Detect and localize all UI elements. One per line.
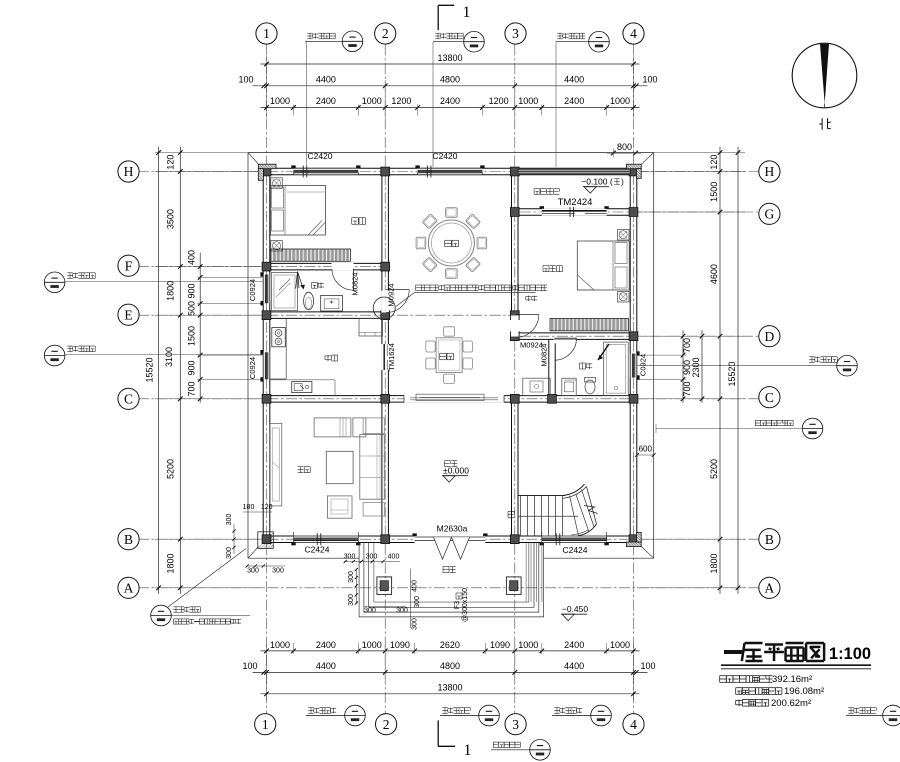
corner pilaster top-left [258, 164, 276, 180]
hall washbasin [523, 378, 550, 395]
axis bubble C left [118, 388, 139, 409]
svg-text:C0924: C0924 [248, 279, 257, 301]
public bath washer [562, 378, 576, 395]
public bath toilet [585, 378, 596, 395]
svg-text:H: H [765, 164, 775, 179]
north label [821, 118, 823, 130]
svg-text:120: 120 [261, 504, 273, 511]
window C2420 top-middle [415, 165, 484, 177]
svg-text:300: 300 [226, 514, 233, 526]
decorative column dims at B [226, 504, 285, 575]
svg-text:1000: 1000 [362, 96, 382, 106]
window C0924 right [630, 351, 640, 379]
kitchen sink [292, 382, 312, 393]
title yiceng pingmiantu [724, 650, 742, 654]
round dining table [416, 208, 487, 279]
svg-text:5200: 5200 [709, 459, 719, 479]
svg-text:4800: 4800 [440, 661, 460, 671]
dim 600 right [635, 445, 655, 459]
svg-text:120: 120 [166, 155, 176, 170]
window C0924 left lower [260, 350, 270, 382]
master bath shower door fan [296, 272, 305, 290]
interior wall along axis 3 [512, 175, 519, 536]
callout waiqiang dayang1 bottom [440, 705, 499, 726]
svg-text:300: 300 [344, 554, 356, 561]
svg-text:2: 2 [383, 717, 390, 732]
porch column small dims [344, 554, 421, 630]
right dimension lines [637, 147, 745, 594]
svg-text:1800: 1800 [166, 553, 176, 573]
svg-text:M0824: M0824 [351, 273, 360, 296]
callout concrete steps bottom [491, 740, 550, 761]
section mark 1 top [438, 4, 470, 30]
svg-text:500: 500 [187, 301, 197, 316]
balcony door TM2424 in wall G [540, 206, 609, 217]
svg-text:C2424: C2424 [304, 545, 329, 555]
svg-text:300: 300 [364, 608, 376, 615]
svg-text:C0924: C0924 [639, 354, 648, 376]
axis bubble 3 top [505, 23, 526, 44]
axis bubble E left [118, 304, 139, 325]
svg-text:1500: 1500 [709, 182, 719, 202]
svg-text:TM1624: TM1624 [387, 343, 396, 371]
svg-text:−0.100 (: −0.100 ( [581, 177, 613, 187]
label dining rect [440, 352, 447, 354]
elderly wardrobe hatched [550, 319, 629, 331]
section mark 1 bottom [438, 720, 471, 759]
exterior wall top along H [263, 168, 637, 175]
note line 3 [736, 698, 811, 709]
svg-text:900: 900 [187, 283, 197, 298]
balcony railing top right [518, 169, 630, 174]
rectangular dining table [426, 327, 473, 384]
svg-text:1000: 1000 [270, 640, 290, 650]
axis bubble 1 top [256, 23, 277, 44]
label up (stairs) [507, 511, 509, 517]
master bath shower [272, 273, 298, 311]
svg-text:F3: F3 [454, 601, 461, 609]
svg-text:2400: 2400 [440, 96, 460, 106]
svg-text:1000: 1000 [518, 96, 538, 106]
svg-text:700: 700 [682, 381, 692, 396]
interior wall E [270, 312, 389, 319]
svg-text:D: D [765, 329, 775, 344]
svg-text:M0924: M0924 [387, 284, 396, 307]
svg-text:3100: 3100 [164, 347, 174, 367]
columns at wall intersections [262, 167, 638, 543]
callout waiqiang dayang5 left #2 [44, 345, 263, 366]
svg-text:3: 3 [512, 26, 519, 41]
living bench top [314, 418, 366, 437]
svg-text:800: 800 [617, 142, 632, 152]
public bath door arrow [598, 344, 609, 360]
axis bubble B left [118, 529, 139, 550]
svg-text:300: 300 [226, 547, 233, 559]
corner pilaster bottom-right [627, 533, 642, 547]
interior wall along axis 2 [382, 175, 389, 536]
svg-text:120: 120 [709, 155, 719, 170]
svg-text:2300: 2300 [691, 357, 701, 377]
label porch [443, 566, 449, 568]
svg-text:700: 700 [682, 338, 692, 353]
svg-text:700: 700 [187, 381, 197, 396]
svg-text:G: G [765, 206, 775, 221]
axis bubble 3 bottom [505, 714, 526, 735]
label balcony [534, 188, 540, 190]
svg-text:±0.000: ±0.000 [443, 466, 469, 476]
left dimension lines [145, 147, 264, 594]
label master bath [312, 281, 318, 283]
axis bubble H right [759, 161, 780, 182]
svg-text:100: 100 [242, 661, 257, 671]
svg-text:1200: 1200 [391, 96, 411, 106]
opening in wall C at hall [404, 395, 504, 403]
svg-text:100: 100 [238, 75, 253, 85]
svg-text:4400: 4400 [316, 75, 336, 85]
svg-text:B: B [765, 532, 774, 547]
svg-text:1000: 1000 [362, 640, 382, 650]
kitchen counters [270, 319, 335, 396]
label elderly room [543, 265, 549, 267]
svg-text:300: 300 [396, 608, 408, 615]
svg-text:−0.450: −0.450 [562, 604, 589, 614]
axis bubble B right [759, 529, 780, 550]
svg-text:300: 300 [348, 571, 355, 583]
master wardrobe hatched [271, 249, 351, 261]
svg-text:392.16m²: 392.16m² [772, 674, 812, 685]
corner pilaster top-right [627, 164, 642, 178]
svg-text:1000: 1000 [518, 640, 538, 650]
interior wall D elderly room [518, 333, 630, 340]
svg-text:1000: 1000 [270, 96, 290, 106]
note line 1 [720, 674, 812, 685]
elderly room bed [577, 241, 629, 290]
note yu tong [528, 296, 530, 301]
svg-text:3: 3 [512, 717, 519, 732]
svg-text:100: 100 [642, 75, 657, 85]
master bath toilet [304, 292, 314, 310]
window C2424 bottom-right [540, 532, 609, 545]
callout concrete apron right [656, 418, 823, 439]
axis bubble 4 top [623, 23, 644, 44]
svg-text:M2630a: M2630a [437, 524, 468, 534]
svg-text:4400: 4400 [564, 75, 584, 85]
label public bath [580, 362, 586, 364]
public bath tub [604, 342, 629, 396]
svg-text:4800: 4800 [440, 75, 460, 85]
porch column left [377, 577, 392, 595]
svg-text:400: 400 [388, 554, 400, 561]
svg-text:300: 300 [412, 618, 419, 630]
svg-text:1090: 1090 [490, 640, 510, 650]
axis bubble 1 bottom [255, 714, 276, 735]
staircase [518, 484, 598, 602]
callout waiqiang dayang2 bottom #2 [552, 705, 611, 726]
callout waiqiang dayang3 #2 top [433, 31, 484, 167]
svg-text:F: F [125, 258, 133, 273]
tv cabinet [270, 423, 282, 506]
interior wall G balcony [518, 209, 630, 215]
svg-text:15520: 15520 [727, 361, 737, 386]
svg-text:400: 400 [412, 580, 419, 592]
svg-text:1: 1 [263, 26, 270, 41]
svg-text:3500: 3500 [166, 209, 176, 229]
svg-text:100: 100 [640, 661, 655, 671]
svg-text:4400: 4400 [564, 661, 584, 671]
svg-text:1: 1 [262, 717, 269, 732]
svg-text:200.62m²: 200.62m² [771, 698, 811, 709]
svg-text:1200: 1200 [489, 96, 509, 106]
coffee table [326, 451, 353, 483]
svg-text:1800: 1800 [709, 553, 719, 573]
svg-text:C2420: C2420 [307, 151, 332, 161]
svg-text:300: 300 [348, 594, 355, 606]
svg-text:300: 300 [247, 568, 259, 575]
axis bubble H left [118, 161, 139, 182]
svg-text:C: C [124, 391, 133, 406]
interior wall C full [270, 396, 630, 403]
bath partition wall D-C middle [549, 339, 555, 395]
note line 2 [736, 686, 824, 697]
kitchen fridge/cabinet [359, 319, 383, 337]
callout zaoxingzhu bottom-left [151, 549, 250, 626]
svg-text:13800: 13800 [437, 683, 462, 693]
callout waiqiang dayang5 right [638, 355, 858, 376]
door M0824 master bath [332, 263, 354, 290]
window C2424 bottom-left [291, 532, 360, 545]
door M0924 master bedroom at axis2/E [373, 290, 409, 320]
label living room [298, 466, 304, 468]
callout waiqiang dayang5 left #1 [44, 272, 263, 293]
callout waiqiang dayang2 bottom #1 [306, 705, 365, 726]
dimension 800 top-right [607, 142, 641, 157]
porch column right [506, 577, 521, 595]
svg-text:2400: 2400 [564, 640, 584, 650]
level mark -0.100 balcony [581, 177, 624, 194]
svg-text:300: 300 [272, 568, 284, 575]
entry door M2630a [412, 533, 487, 559]
exterior wall bottom along B [263, 536, 637, 543]
interior wall F [270, 263, 382, 270]
svg-text:400: 400 [187, 250, 197, 265]
svg-text:A: A [765, 580, 775, 595]
kitchen stove [272, 328, 286, 347]
label master bedroom [352, 217, 359, 219]
svg-text:C2420: C2420 [432, 151, 457, 161]
svg-text:): ) [621, 178, 624, 187]
svg-text:600: 600 [639, 445, 653, 454]
label entrance hall [444, 461, 446, 467]
top dimension lines [238, 53, 657, 118]
axis bubble D right [759, 326, 780, 347]
axis bubble 4 bottom [623, 714, 644, 735]
callout waiqiang dayang1 right edge [846, 705, 900, 726]
svg-text:15520: 15520 [145, 357, 155, 382]
axis bubble F left [118, 255, 139, 276]
axis bubble A right [759, 577, 780, 598]
svg-text:C: C [765, 390, 774, 405]
single sofa bottom [327, 496, 352, 518]
svg-text:300: 300 [366, 554, 378, 561]
svg-text:B: B [124, 532, 133, 547]
window C0924 left upper [260, 272, 270, 305]
svg-text:4400: 4400 [316, 661, 336, 671]
door M0824 public bath [554, 338, 577, 360]
svg-text:4: 4 [630, 717, 637, 732]
grid axis lines [138, 45, 759, 714]
svg-text:A: A [124, 580, 134, 595]
svg-text:2400: 2400 [316, 640, 336, 650]
svg-text:2400: 2400 [564, 96, 584, 106]
interior wall E stub near axis 3 [512, 312, 519, 319]
svg-text:900: 900 [187, 360, 197, 375]
svg-text:196.08m²: 196.08m² [784, 686, 824, 697]
bedside lamps master [271, 178, 283, 189]
svg-text:1: 1 [464, 742, 472, 759]
door M0924 elderly room [511, 315, 539, 338]
svg-text:300: 300 [414, 596, 421, 608]
svg-text:E: E [124, 307, 132, 322]
svg-text:TM2424: TM2424 [558, 197, 593, 208]
svg-text:2: 2 [382, 26, 389, 41]
svg-text:C2424: C2424 [562, 545, 587, 555]
svg-text:1: 1 [463, 4, 471, 21]
porch steps [359, 542, 543, 616]
title underline [721, 665, 871, 669]
master bedroom bed [271, 186, 326, 236]
svg-text:5200: 5200 [166, 459, 176, 479]
svg-text:2620: 2620 [440, 640, 460, 650]
svg-text:@300x150: @300x150 [462, 588, 469, 622]
level mark -0.450 porch [561, 604, 588, 621]
note door pier text [416, 284, 422, 286]
exterior wall left along axis 1 [263, 168, 270, 542]
svg-text:C0924: C0924 [248, 357, 257, 379]
svg-text:1800: 1800 [166, 281, 176, 301]
svg-text:1000: 1000 [610, 96, 630, 106]
decorative column at B1 [258, 532, 274, 549]
label kitchen [327, 355, 329, 361]
svg-text:1500: 1500 [187, 326, 197, 346]
elderly bedside lamps [618, 230, 630, 241]
sideboard below dining [416, 394, 484, 400]
axis bubble 2 top [375, 23, 396, 44]
level mark 0.000 entrance [442, 466, 469, 483]
svg-text:H: H [124, 164, 134, 179]
axis bubble G right [759, 203, 780, 224]
master bath vanity [321, 295, 343, 311]
kitchen door TM1624 [381, 344, 389, 370]
axis bubble A left [118, 577, 139, 598]
svg-text:4600: 4600 [709, 264, 719, 284]
svg-text:4: 4 [630, 26, 637, 41]
svg-text:13800: 13800 [437, 53, 462, 63]
bottom dimension lines [242, 640, 655, 700]
eave overhang outline [248, 153, 654, 559]
axis bubble 2 bottom [376, 714, 397, 735]
svg-text:M0824: M0824 [540, 344, 549, 367]
window C2420 top-left [291, 165, 360, 177]
svg-text:1:100: 1:100 [829, 645, 871, 663]
exterior wall right along axis 4 [630, 168, 637, 542]
svg-text:1000: 1000 [610, 640, 630, 650]
svg-text:2400: 2400 [316, 96, 336, 106]
sofa long right [360, 418, 385, 516]
label dining round [445, 239, 452, 241]
callout waiqiang dayang4 top [556, 31, 609, 167]
axis bubble C right [759, 387, 780, 408]
svg-text:1090: 1090 [390, 640, 410, 650]
callout waiqiang dayang3 #1 top [305, 31, 363, 167]
svg-text:180: 180 [243, 504, 255, 511]
north compass [792, 43, 857, 108]
